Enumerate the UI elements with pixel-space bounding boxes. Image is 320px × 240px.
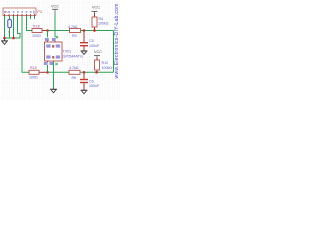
svg-text:4.7kΩ: 4.7kΩ	[69, 66, 79, 70]
wire pin3 down	[13, 16, 15, 38]
wire bottom bus left	[48, 71, 70, 73]
svg-text:R4: R4	[99, 17, 104, 21]
wire component to ground net	[9, 28, 11, 38]
svg-text:100nF: 100nF	[89, 84, 100, 88]
svg-text:TV01: TV01	[63, 50, 72, 54]
wire pin5 long down	[22, 16, 29, 72]
capacitor C6	[80, 79, 100, 88]
power VCC (middle)	[51, 5, 59, 13]
wire pin6 to R18	[27, 16, 33, 31]
svg-text:R15: R15	[30, 66, 37, 70]
wire IC ground down	[53, 62, 55, 89]
svg-text:www.Electronics-DIY-Lab.com: www.Electronics-DIY-Lab.com	[114, 4, 120, 79]
wire R4 tap up	[94, 27, 96, 31]
wire VCC to IC pin	[54, 13, 56, 38]
junction dot	[12, 37, 15, 40]
IC pin number smudges bottom	[44, 62, 53, 65]
component X1 (blue)	[8, 20, 12, 35]
resistor R15	[29, 66, 39, 79]
junction dot (C6 tap)	[83, 71, 86, 74]
junction dot	[46, 29, 49, 32]
IC U1	[45, 41, 63, 62]
pin cross mark	[56, 36, 58, 38]
svg-text:R5: R5	[72, 34, 77, 38]
ground GND1	[1, 38, 8, 44]
wire C5 tap down	[83, 31, 85, 43]
svg-text:VCC: VCC	[51, 5, 59, 9]
wire pin2 to component	[9, 16, 11, 20]
svg-text:100kΩ: 100kΩ	[98, 21, 109, 25]
wire bus to IC pin1	[47, 31, 49, 38]
wire pin7 stub	[30, 16, 32, 19]
junction dot	[3, 37, 6, 40]
svg-text:100kΩ: 100kΩ	[102, 66, 113, 70]
capacitor C5	[80, 39, 100, 48]
junction dot (R12 tap)	[95, 71, 98, 74]
wire pin4 jog	[18, 16, 21, 38]
svg-text:100nF: 100nF	[89, 44, 100, 48]
wire right vertical	[113, 31, 115, 73]
wire IC pin to bottom bus	[47, 65, 49, 72]
wire R12 to VCC	[96, 57, 98, 60]
svg-text:100Ω: 100Ω	[32, 34, 41, 38]
svg-text:R18: R18	[33, 25, 40, 29]
wire C6 tap down	[83, 72, 85, 79]
svg-text:C5: C5	[89, 39, 94, 43]
wire top bus left	[48, 30, 70, 32]
svg-text:R12: R12	[102, 61, 109, 65]
ground GND4	[81, 90, 88, 93]
resistor R5	[68, 25, 81, 38]
junction dot	[46, 71, 49, 74]
IC pin number smudges top	[45, 38, 56, 41]
svg-text:VCC: VCC	[92, 6, 100, 10]
wire bottom bus right	[81, 71, 114, 73]
ground GND3	[50, 89, 57, 92]
power VCC (right top)	[92, 6, 101, 14]
svg-text:C6: C6	[89, 79, 94, 83]
resistor R6	[69, 66, 80, 80]
wire R15 out (red)	[39, 71, 48, 73]
background grid	[0, 0, 120, 100]
wire C6 to ground	[83, 83, 85, 90]
svg-text:P2: P2	[37, 9, 43, 14]
resistor R12	[95, 60, 113, 70]
svg-text:R6: R6	[72, 76, 77, 80]
svg-text:100Ω: 100Ω	[29, 76, 38, 80]
power VCC (right middle)	[94, 50, 102, 57]
wire R4 to VCC	[94, 13, 96, 17]
wire R12 to bus	[96, 70, 98, 72]
wire C5 to ground	[83, 46, 85, 50]
resistor R18	[32, 25, 42, 39]
wire ground net horizontal	[5, 37, 21, 39]
resistor R4	[92, 17, 109, 27]
wire R18 out (red)	[42, 30, 48, 32]
wire pin1 down	[4, 16, 6, 38]
connector P2	[3, 8, 36, 16]
junction dot (R4 tap)	[93, 29, 96, 32]
pin cross mark	[55, 63, 57, 65]
svg-text:4.7kΩ: 4.7kΩ	[68, 25, 78, 29]
ground GND2	[81, 51, 88, 54]
junction dot (C5 tap)	[83, 29, 86, 32]
wire pin8 stub	[34, 16, 36, 19]
svg-text:VCC: VCC	[94, 50, 102, 54]
wire top bus right	[81, 30, 114, 32]
svg-text:GP2M4ATG: GP2M4ATG	[63, 55, 83, 59]
